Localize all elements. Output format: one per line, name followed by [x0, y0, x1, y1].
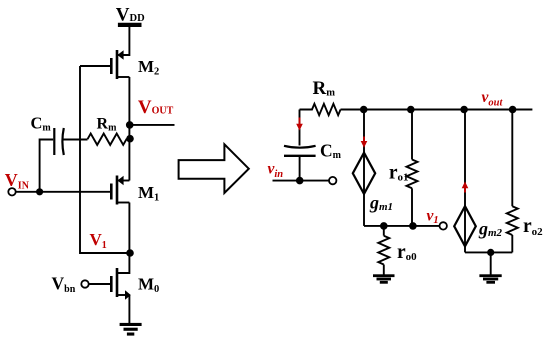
dependent source gm1 (diamond) — [353, 153, 375, 194]
red current arrow gm1 (down) — [361, 137, 368, 148]
node vin dot — [296, 177, 304, 185]
node dot rail ro1 — [407, 106, 415, 114]
wire join line gm2-ro2 — [465, 251, 512, 253]
wire v1 node line — [364, 225, 440, 227]
ground (M0 source) — [120, 323, 142, 336]
node dot rail ro2 — [509, 106, 517, 114]
resistor Rm — [88, 134, 131, 145]
svg-text:VOUT: VOUT — [138, 97, 174, 118]
wire rail to ro2 — [511, 110, 513, 207]
node dot rail gm1 — [360, 106, 368, 114]
wire VOUT output stub — [130, 124, 175, 126]
capacitor Cm — [54, 128, 64, 155]
wire top rail vout — [341, 109, 533, 111]
wire ro2 down — [511, 235, 513, 252]
node VOUT dot upper — [126, 121, 134, 129]
svg-text:VDD: VDD — [116, 5, 145, 26]
svg-text:vin: vin — [268, 161, 284, 180]
terminal Vbn — [81, 280, 88, 287]
wire VDD bar to M2 source — [117, 27, 129, 55]
wire M2 gate to feedback line — [80, 65, 111, 67]
wire rail to ro1 — [411, 110, 413, 160]
resistor ro1 — [407, 160, 418, 189]
svg-text:M0: M0 — [138, 275, 159, 295]
svg-text:ro1: ro1 — [389, 163, 409, 184]
resistor ro2 — [507, 206, 518, 235]
red current arrow gm2 (up) — [462, 182, 469, 193]
node VOUT dot lower — [126, 135, 134, 143]
svg-text:gm1: gm1 — [369, 192, 393, 213]
wire ro0 to ground — [383, 265, 385, 276]
ground (gm2/ro2) — [479, 274, 501, 283]
wire rail to gm2 — [464, 110, 466, 207]
wire Rm corner down to Cm — [299, 110, 301, 146]
svg-text:V1: V1 — [90, 230, 107, 251]
wire Cm to vin node — [299, 157, 301, 181]
wire V1 to M0 drain — [117, 253, 129, 273]
wire vin node — [273, 180, 330, 182]
transistor M0 — [111, 268, 131, 300]
wire Vbn to M0 gate — [89, 283, 112, 285]
svg-text:M1: M1 — [138, 183, 159, 203]
svg-text:Rm: Rm — [313, 78, 336, 99]
resistor ro0 — [378, 236, 389, 265]
svg-text:Vbn: Vbn — [52, 274, 76, 295]
node dot join — [487, 249, 494, 256]
node dot v1-ro0 — [380, 222, 388, 230]
capacitor Cm (right) — [284, 146, 316, 156]
svg-text:Rm: Rm — [97, 116, 118, 134]
node dot v1-ro1 — [409, 222, 417, 230]
terminal vin — [329, 177, 336, 184]
wire VIN to M1 gate — [16, 191, 112, 193]
svg-text:v1: v1 — [427, 208, 439, 227]
node VIN junction dot — [36, 188, 43, 195]
power supply bar VDD — [118, 23, 142, 27]
svg-text:VIN: VIN — [5, 170, 30, 191]
wire M2 drain to M1 drain — [128, 77, 130, 181]
red current arrow (into Cm branch) — [296, 118, 303, 131]
wire M0 source to ground — [128, 295, 130, 323]
wire rail to gm1 — [363, 110, 365, 153]
feedback wire (M2 gate to V1 node) — [80, 66, 130, 253]
resistor Rm (right) — [300, 104, 341, 115]
wire M1 source to node V1 — [128, 203, 130, 254]
node V1 dot — [126, 249, 134, 257]
svg-text:M2: M2 — [138, 57, 159, 77]
svg-text:vout: vout — [482, 89, 504, 109]
wire Cm to Rm — [64, 139, 88, 141]
svg-text:Cm: Cm — [31, 114, 52, 134]
terminal VIN — [8, 188, 15, 195]
dependent source gm2 (diamond) — [454, 206, 476, 246]
svg-text:ro2: ro2 — [523, 216, 543, 238]
wire ro1 to v1 line — [411, 188, 413, 226]
block arrow (left circuit implies right model) — [179, 144, 249, 193]
ground (ro0) — [373, 274, 395, 283]
wire gm1 to v1 line — [363, 194, 365, 226]
wire join to ground — [490, 252, 492, 275]
svg-text:gm2: gm2 — [478, 218, 503, 239]
transistor M2 — [111, 50, 129, 79]
wire v1 to ro0 — [383, 226, 385, 236]
svg-text:ro0: ro0 — [397, 242, 417, 263]
node dot rail gm2 — [460, 106, 468, 114]
terminal v1 — [440, 222, 447, 229]
wire gm2 to join line — [464, 246, 466, 252]
wire VIN node up to Cm — [40, 140, 54, 192]
transistor M1 — [111, 176, 129, 205]
svg-text:Cm: Cm — [320, 141, 342, 162]
